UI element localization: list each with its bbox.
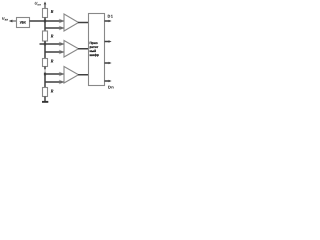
resistor R2: [43, 31, 48, 41]
svg-text:R: R: [51, 89, 54, 94]
svg-text:УВХ: УВХ: [20, 20, 27, 24]
svg-text:R: R: [51, 9, 54, 14]
svg-text:uвх: uвх: [2, 16, 8, 22]
resistor R1: [43, 9, 48, 18]
ladder wire below R3: [44, 67, 46, 70]
comparator K1: [64, 14, 79, 31]
resistor R4: [43, 88, 48, 97]
wire K2 output: [78, 48, 89, 50]
ladder wire R2 to R3: [44, 41, 46, 59]
input arrow (points left): [9, 20, 17, 23]
wire tap to comparator 1 lower input: [45, 27, 64, 29]
wire R4 to ground: [44, 97, 46, 102]
svg-text:D1: D1: [108, 14, 114, 19]
output stub 2: [105, 41, 110, 43]
svg-text:шифр: шифр: [90, 53, 99, 57]
wire to comparator 2 lower input: [45, 51, 64, 53]
ellipsis dots: [44, 70, 45, 71]
svg-text:Uоп: Uоп: [35, 1, 42, 7]
wire K1 output: [78, 22, 89, 24]
wire from UVH to comparator 1 upper input: [30, 20, 64, 22]
resistor R3: [43, 59, 48, 67]
svg-text:R: R: [51, 59, 54, 64]
comparator K3: [64, 67, 79, 84]
output D1: [105, 20, 110, 22]
svg-text:Dn: Dn: [108, 85, 114, 90]
wire K3 output: [78, 74, 89, 76]
output Dn: [105, 80, 110, 82]
wire to comparator 3 lower input: [45, 81, 64, 83]
ground: [42, 101, 48, 103]
Vref terminal arrow up: [44, 2, 47, 5]
wire tap2 to comparator 2 upper input: [40, 43, 64, 45]
output stub 3: [105, 62, 110, 64]
wire tap3 to comparator 3 upper input: [45, 73, 64, 75]
node tap3: [44, 73, 46, 76]
node tap1: [44, 20, 46, 23]
sample-hold box UVH: [17, 18, 30, 28]
ladder wire tap3 to R4: [44, 74, 46, 88]
ladder wire R1 to R2: [44, 18, 46, 32]
node tap2: [44, 43, 46, 46]
priority encoder box: [89, 14, 105, 86]
svg-text:R: R: [51, 34, 54, 39]
comparator K2: [64, 41, 79, 58]
